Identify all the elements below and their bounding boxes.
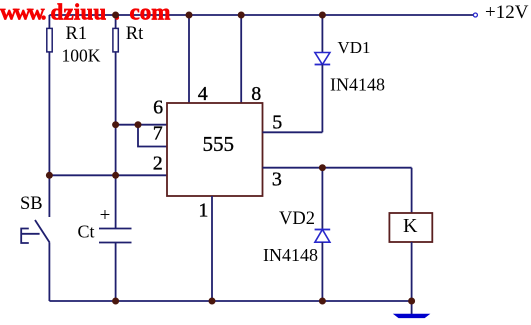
svg-text:Rt: Rt (126, 24, 144, 44)
resistor R1 (47, 28, 52, 52)
ground (394, 314, 429, 317)
junction Rt pin2 (112, 172, 119, 179)
wire VD1 branch lower (321, 65, 323, 133)
wire VD2 branch lower (321, 242, 323, 301)
junction VD2 pin3 (319, 164, 326, 171)
wire +12V top rail (49, 14, 473, 16)
svg-text:4: 4 (198, 83, 208, 105)
switch SB actuator bracket (21, 229, 39, 244)
wire Rt bottom lead to capacitor (115, 52, 117, 229)
svg-text:100K: 100K (62, 46, 101, 66)
diode VD1 (315, 53, 331, 65)
wire pin2 line (49, 174, 167, 176)
op-amp U1 555 IC box (167, 103, 263, 196)
junction ground (408, 298, 415, 305)
switch SB blade (35, 220, 50, 243)
svg-text:SB: SB (20, 194, 43, 214)
wire pin1 lead (211, 196, 213, 301)
junction VD2 bottom (319, 298, 326, 305)
svg-text:1: 1 (198, 200, 208, 222)
svg-text:2: 2 (153, 153, 163, 175)
svg-text:3: 3 (272, 168, 282, 190)
junction pin4 top (186, 12, 193, 19)
svg-text:7: 7 (153, 123, 163, 145)
wire pin6 line (116, 124, 167, 126)
terminal +12V open circle (473, 13, 477, 17)
junction pin1 bottom (209, 298, 216, 305)
svg-text:8: 8 (251, 83, 261, 105)
junction pin8 top (238, 12, 245, 19)
wire K top lead (411, 168, 413, 213)
wire Ct bottom lead (115, 243, 117, 302)
svg-text:+12V: +12V (485, 2, 529, 23)
wire Rt top lead (115, 15, 117, 28)
svg-text:K: K (403, 215, 418, 237)
junction Rt top (112, 12, 119, 19)
junction R1 pin2 (46, 172, 53, 179)
switch SB bottom lead (48, 243, 50, 302)
wire K bottom lead (411, 242, 413, 301)
wire pin5 line (263, 131, 323, 133)
wire R1 top lead (48, 15, 50, 28)
wire pin8 lead (240, 15, 242, 103)
junction pin6 Rt (112, 121, 119, 128)
wire R1 bottom lead (48, 52, 50, 175)
svg-text:IN4148: IN4148 (263, 245, 318, 265)
wire bottom rail (49, 300, 411, 302)
switch SB top lead (48, 175, 50, 217)
wire pin7 jog (138, 125, 167, 147)
diode VD2 (315, 230, 331, 243)
junction Ct bottom (112, 298, 119, 305)
ground stub (411, 301, 413, 314)
svg-text:R1: R1 (66, 24, 88, 44)
svg-text:6: 6 (153, 97, 163, 119)
junction pin7 tap (135, 121, 142, 128)
svg-text:555: 555 (203, 132, 235, 156)
junction VD1 top (319, 12, 326, 19)
svg-text:Ct: Ct (78, 222, 95, 242)
svg-text:www.dziuu.com: www.dziuu.com (0, 0, 170, 25)
wire VD1 branch upper (321, 15, 323, 53)
resistor Rt (113, 28, 118, 52)
svg-text:VD1: VD1 (338, 38, 371, 57)
svg-text:VD2: VD2 (279, 209, 315, 229)
wire VD2 branch upper (321, 168, 323, 230)
wire pin3 line (263, 167, 412, 169)
svg-text:5: 5 (272, 111, 282, 133)
svg-text:+: + (100, 205, 111, 226)
relay K box (389, 213, 432, 242)
wire pin4 lead (188, 15, 190, 103)
capacitor Ct (99, 229, 132, 243)
svg-text:IN4148: IN4148 (330, 75, 385, 95)
